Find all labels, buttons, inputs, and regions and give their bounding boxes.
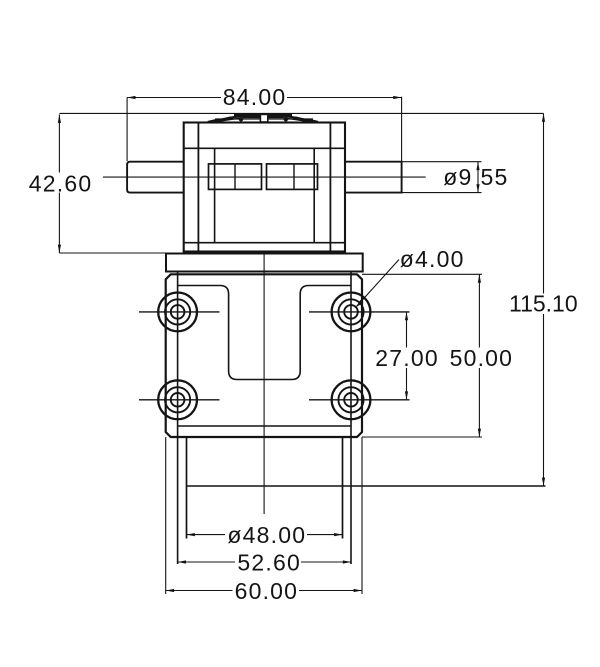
- svg-text:115.10: 115.10: [509, 291, 578, 317]
- arrow 9.55 bottom: [476, 184, 479, 192]
- hole bottom-left circles: [158, 380, 197, 419]
- svg-text:42.60: 42.60: [29, 171, 93, 197]
- dim 50.00 line: [478, 274, 480, 437]
- inner contour top edge with U notch: [178, 286, 351, 380]
- pump head left side: [186, 437, 188, 539]
- hole vertical centerline right: [350, 271, 352, 564]
- arrow 42.60 bottom: [58, 245, 61, 253]
- dim O9.55 extensions: [402, 162, 482, 193]
- arrow 52.60 left: [178, 560, 186, 563]
- hole top-right circles: [332, 293, 371, 332]
- arrow 84.00 right: [393, 96, 401, 99]
- svg-text:50.00: 50.00: [450, 345, 514, 371]
- horizontal centerline: [103, 176, 426, 178]
- dim 84.00 extension left: [126, 98, 128, 162]
- vertical centerline of bottom view: [263, 254, 265, 515]
- dim O48.00 line: [187, 534, 343, 536]
- arrow 48.00 right: [334, 533, 342, 536]
- svg-text:ø48.00: ø48.00: [227, 522, 306, 548]
- hole horizontal centerline bottom-right (extends to 27.00 dim): [309, 399, 410, 401]
- dim 52.60 line: [178, 561, 352, 563]
- dim 50.00 extension bottom (plate bottom extended): [362, 436, 482, 438]
- motor body outer rectangle: [184, 123, 345, 252]
- dim 42.60 bottom extension: [59, 252, 166, 254]
- pump head bottom edge + 115.10 extension: [187, 485, 546, 487]
- dome inner line: [213, 118, 312, 123]
- arrowheads: [58, 96, 545, 592]
- dimension texts: [29, 84, 578, 604]
- arrow 50.00 bottom: [478, 429, 481, 437]
- 60.00 extension left: [165, 437, 167, 594]
- dome under-band line: [215, 118, 313, 120]
- arrow 115.10 bottom: [542, 478, 545, 486]
- hole vertical centerline left: [177, 271, 179, 564]
- motor inner horizontal bottom: [184, 242, 345, 244]
- terminal block right: [267, 164, 318, 190]
- dome right dot: [284, 117, 288, 121]
- svg-text:52.60: 52.60: [237, 549, 301, 575]
- dome outline: [207, 116, 317, 122]
- arrow 27.00 top: [405, 312, 408, 320]
- inner contour bottom edge: [178, 425, 351, 427]
- svg-text:27.00: 27.00: [375, 345, 439, 371]
- left shaft: [127, 162, 184, 193]
- right shaft: [345, 162, 402, 193]
- motor flange line right: [329, 123, 331, 252]
- dim 115.10 line: [543, 113, 545, 486]
- svg-text:55: 55: [481, 164, 509, 190]
- dim 84.00 extension right: [401, 97, 403, 193]
- terminal block right divider: [293, 164, 295, 190]
- motor flange line left: [197, 123, 199, 252]
- arrow 50.00 top: [478, 274, 481, 282]
- arrow 9.55 top: [476, 162, 479, 170]
- arrow 27.00 bottom: [405, 391, 408, 399]
- hole horizontal centerline top-left: [139, 311, 220, 313]
- 60.00 extension right: [361, 437, 363, 594]
- arrow 52.60 right: [343, 560, 351, 563]
- dome base accent right: [307, 120, 318, 122]
- arrow 48.00 left: [187, 533, 195, 536]
- dim O9.55 line: [477, 162, 479, 193]
- dome slope accent right inner: [284, 116, 297, 118]
- terminal block left divider: [234, 164, 236, 190]
- dim 84.00 line: [127, 97, 402, 99]
- arrow 115.10 top: [542, 113, 545, 121]
- dome slope accent left outer: [212, 118, 231, 122]
- dome left dot: [239, 117, 243, 121]
- dome slope accent left inner: [229, 116, 242, 118]
- motor can line left: [214, 148, 216, 242]
- dim 27.00 line: [406, 312, 408, 400]
- mounting bar: [166, 254, 363, 272]
- top tangent extension line (42.60 / 115.10): [59, 112, 543, 114]
- motor inner horizontal top: [184, 147, 345, 149]
- arrow 84.00 left: [127, 96, 135, 99]
- pump head right side: [342, 437, 344, 539]
- dome slope accent right outer: [295, 118, 314, 122]
- leader line for O4.00: [357, 260, 399, 307]
- terminal block left: [209, 164, 262, 190]
- dim 42.60 line: [58, 115, 60, 254]
- motor can line right: [313, 148, 315, 242]
- flange plate: [166, 274, 362, 437]
- arrow 42.60 top: [58, 115, 61, 123]
- svg-text:60.00: 60.00: [235, 578, 299, 604]
- hole top-left circles: [158, 293, 197, 332]
- hole horizontal centerline top-right (extends to 27.00 dim): [309, 311, 410, 313]
- svg-text:84.00: 84.00: [223, 84, 287, 110]
- dome top band: [234, 114, 292, 117]
- dome center square: [260, 114, 267, 122]
- hole horizontal centerline bottom-left: [139, 399, 220, 401]
- dim 60.00 line: [166, 590, 362, 592]
- arrow leader O4.00: [356, 300, 364, 307]
- arrow 60.00 left: [166, 589, 174, 592]
- arrow 60.00 right: [354, 589, 362, 592]
- svg-text:ø9: ø9: [443, 164, 472, 190]
- dim 50.00 extension top (plate top extended): [362, 273, 482, 275]
- dome base accent left: [208, 120, 219, 122]
- svg-text:ø4.00: ø4.00: [400, 246, 465, 272]
- hole bottom-right circles: [332, 380, 371, 419]
